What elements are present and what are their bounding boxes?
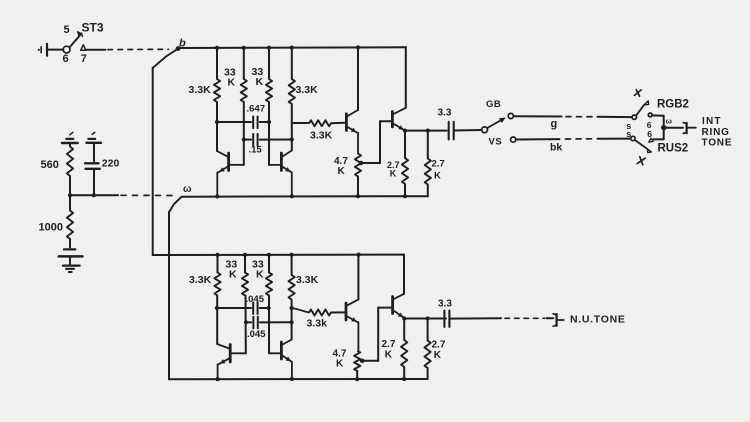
wire (Q3 collector to rail) (357, 47, 359, 110)
node (Q3 emitter / 4.7K top) (359, 161, 364, 166)
label GB (486, 99, 501, 110)
wire (69, 258, 71, 265)
wire (86, 49, 106, 51)
label 33K (224, 67, 236, 89)
wire (291, 104, 293, 151)
wire g (dashed) (566, 116, 596, 118)
wire (427, 368, 429, 379)
wire (664, 127, 683, 129)
contact (RUS2 output) (649, 138, 653, 142)
contact (g line end) (632, 115, 636, 119)
label RING (702, 127, 730, 138)
label INT (702, 116, 722, 127)
node (215, 120, 219, 124)
wire (404, 184, 406, 196)
label 3.3 (438, 299, 452, 310)
contact (RGB2 output) (648, 113, 652, 117)
node b label (179, 38, 186, 50)
contact GB (open circle) (482, 127, 488, 133)
label 3.3k (307, 318, 328, 330)
capacitor .045 (217, 302, 269, 314)
switch blade from node b (153, 49, 177, 67)
wire (bottom supply rail) (153, 254, 404, 256)
wire (547, 317, 554, 319)
svg-text:6: 6 (63, 53, 69, 65)
node (267, 46, 271, 50)
wire g (solid) (513, 115, 561, 117)
wire (Q2 collector output) (292, 122, 309, 124)
svg-text:560: 560 (41, 159, 59, 171)
terminal (INT RING TONE) (683, 123, 696, 134)
wire (652, 114, 664, 116)
node (356, 45, 360, 49)
svg-text:.045: .045 (247, 329, 266, 340)
label 3.3K (296, 84, 319, 96)
resistor R 33K (Q1 base) (241, 48, 247, 102)
label .045 (246, 294, 265, 305)
wire (403, 367, 405, 379)
svg-text:2.7: 2.7 (432, 340, 446, 351)
resistor R 33K (Q5 base) (242, 255, 248, 296)
wire (link to Q8 base) (362, 308, 391, 361)
node (560/220 junction) (68, 193, 72, 197)
label 4.7K (333, 349, 347, 370)
svg-text:K: K (434, 171, 441, 182)
node (267, 306, 271, 310)
svg-text:g: g (551, 118, 558, 130)
label 560 (41, 159, 59, 171)
resistor R 33K (Q2 base) (266, 48, 272, 102)
svg-text:ω: ω (183, 184, 192, 195)
svg-text:6: 6 (647, 129, 652, 139)
label .045 (247, 329, 266, 340)
wire (243, 102, 245, 165)
svg-text:3.3K: 3.3K (189, 274, 212, 286)
svg-text:TONE: TONE (702, 138, 733, 149)
resistor 2.7K (second) (425, 131, 431, 185)
wire (dashed to node w) (121, 194, 172, 196)
svg-text:2.7: 2.7 (382, 339, 396, 350)
node (403, 129, 407, 133)
wire (245, 296, 247, 354)
label 2.7K (432, 159, 445, 182)
node (ring tone junction) (661, 125, 666, 130)
switch RGB2 blade (636, 101, 648, 116)
svg-text:2.7: 2.7 (432, 159, 445, 170)
label VS (489, 137, 503, 148)
transistor Q8 (393, 294, 405, 319)
wire (331, 122, 345, 124)
wire (w down to bottom rail) (168, 212, 170, 379)
svg-text:220: 220 (102, 158, 120, 170)
label RGB2 (657, 99, 689, 111)
capacitor 220 (85, 163, 100, 169)
svg-text:3.3K: 3.3K (296, 274, 319, 286)
battery cell terminal (left of ST3) (38, 44, 47, 56)
label 3.3K (296, 274, 319, 286)
node (290, 46, 294, 50)
label e (666, 117, 673, 126)
capacitor .045 (lower) (246, 317, 292, 329)
node (290, 320, 294, 324)
svg-text:K: K (390, 169, 397, 179)
node (290, 253, 294, 257)
switch ST3 blade (70, 36, 80, 47)
actuator cross (RUS2) (637, 157, 645, 165)
label 33K (252, 66, 264, 88)
wire (291, 300, 293, 340)
svg-text:N.U.TONE: N.U.TONE (570, 314, 626, 326)
node (402, 377, 406, 381)
wire (216, 102, 218, 151)
wire (69, 176, 71, 195)
wire (bracket to junction) (663, 116, 665, 139)
node w label (183, 184, 192, 195)
node (242, 46, 246, 50)
svg-text:.15: .15 (249, 145, 263, 156)
node (403, 194, 407, 198)
wire (216, 296, 218, 345)
label ST3 (82, 21, 104, 35)
svg-text:.647: .647 (247, 104, 266, 115)
capacitor 3.3 (output coupling) (449, 122, 454, 140)
node (355, 377, 359, 381)
wire (356, 371, 358, 379)
resistor 2.7K (first) (401, 319, 407, 367)
label g (551, 118, 558, 130)
label N.U.TONE (570, 314, 626, 326)
svg-text:K: K (229, 269, 237, 281)
svg-text:3.3K: 3.3K (296, 84, 319, 96)
node (215, 46, 219, 50)
label 2.7K (382, 339, 396, 361)
node (215, 194, 219, 198)
label 3.3 (438, 108, 452, 119)
contact (bk line start) (511, 137, 516, 142)
label 33K (252, 259, 264, 281)
label 220 (102, 158, 120, 170)
wire (331, 311, 345, 313)
node (426, 316, 430, 320)
node (215, 253, 219, 257)
svg-text:ω: ω (666, 117, 673, 126)
label 6 (63, 53, 69, 65)
svg-text:K: K (228, 77, 236, 89)
svg-text:.045: .045 (246, 294, 265, 305)
wire (449, 317, 501, 319)
svg-text:K: K (338, 166, 346, 177)
svg-text:RING: RING (702, 127, 730, 138)
wire (rail corner to Q4 collector) (405, 47, 407, 108)
transistor Q5 (217, 344, 246, 379)
label 5 (64, 24, 70, 36)
resistor R 33K (Q6 base) (266, 255, 272, 296)
wire (link to Q4 base) (361, 121, 391, 163)
wire (Q7 collector to rail) (357, 255, 359, 300)
wire (69, 143, 71, 147)
svg-text:s: s (626, 129, 631, 139)
node b junction (176, 46, 181, 51)
wire (rail corner to Q8 collector) (403, 255, 405, 294)
switch blade from node w (169, 197, 182, 212)
label 2.7K (432, 340, 446, 362)
svg-text:VS: VS (489, 137, 503, 148)
supply terminal (above 220) (86, 132, 101, 142)
resistor 2.7K (first) (402, 131, 408, 184)
terminal (N.U. TONE) (553, 314, 564, 326)
resistor R 3.3K (Q5 collector load) (214, 255, 220, 296)
wire (Q4 emitter output row) (405, 130, 447, 132)
svg-text:3.3: 3.3 (438, 108, 452, 119)
resistor 3.3k (series to Q7 base) (309, 310, 331, 316)
wire (b feed down to lower rail) (152, 68, 154, 255)
label 33K (226, 259, 238, 281)
wire (427, 185, 429, 197)
svg-text:RGB2: RGB2 (657, 99, 689, 111)
node (243, 253, 247, 257)
node (215, 306, 219, 310)
wire g (solid) (598, 116, 632, 118)
label .15 (249, 145, 263, 156)
wire bk (dashed) (566, 138, 596, 140)
label 2.7K (387, 160, 400, 179)
wire (93, 169, 95, 196)
node (244, 320, 248, 324)
svg-text:bk: bk (550, 142, 562, 154)
wire (653, 138, 663, 140)
resistor 3.3K (series to Q3 base) (309, 120, 331, 126)
node (216, 377, 220, 381)
switch blade with arrow (GB to g line) (487, 118, 505, 128)
resistor 560 (67, 147, 73, 176)
node (356, 194, 360, 198)
label bk (550, 142, 562, 154)
resistor 4.7K (354, 351, 360, 371)
wire (357, 177, 359, 197)
svg-text:K: K (336, 359, 344, 370)
ground (63, 266, 80, 272)
svg-text:GB: GB (486, 99, 501, 110)
switch ST3 pivot terminal 6 (63, 46, 70, 53)
node (290, 306, 294, 310)
spring contact s (626, 121, 631, 131)
wire (69, 239, 71, 248)
label 7 (81, 53, 87, 65)
svg-text:K: K (385, 350, 393, 361)
resistor R 3.3K (Q2 collector load) (289, 48, 295, 104)
transistor Q2 (269, 151, 292, 197)
wire (top circuit emitter rail) (182, 195, 428, 198)
wire (93, 143, 95, 162)
capacitor .15 (244, 134, 292, 146)
resistor R 3.3K (Q6 collector load) (289, 255, 295, 300)
supply terminal (above 560) (62, 132, 78, 143)
node (267, 120, 271, 124)
label 3.3K (189, 274, 212, 286)
wire (268, 102, 270, 165)
capacitor 3.3 (N.U. tone coupling) (444, 311, 449, 327)
wire (70, 194, 118, 196)
node (290, 194, 294, 198)
svg-text:5: 5 (64, 24, 70, 36)
switch ST3 contact 5 (78, 32, 83, 37)
transistor Q1 (217, 151, 244, 196)
battery cell (59, 249, 83, 256)
svg-text:3.3K: 3.3K (310, 130, 333, 142)
wire (dashed link to node b) (108, 48, 169, 50)
wire (268, 296, 270, 354)
wire (48, 49, 63, 51)
node (Q7 emitter / 4.7K top) (360, 359, 365, 364)
contact 6 (647, 129, 652, 139)
capacitor .647 (217, 117, 269, 129)
label TONE (702, 138, 733, 149)
node (220 to rail) (92, 193, 96, 197)
transistor Q3 (346, 110, 358, 154)
wire (dashed) (505, 317, 545, 319)
svg-text:3.3K: 3.3K (189, 84, 212, 96)
node (290, 137, 294, 141)
switch ST3 contact 7 (81, 45, 86, 51)
contact (bk line end) (631, 136, 635, 140)
resistor 2.7K (second) (425, 319, 431, 368)
wire (Q8 emitter output row) (404, 318, 446, 320)
svg-text:K: K (256, 269, 264, 281)
node (357, 253, 361, 257)
svg-text:INT: INT (702, 116, 722, 127)
resistor 1000 (67, 195, 73, 239)
label .647 (247, 104, 266, 115)
node (242, 137, 246, 141)
svg-text:3.3: 3.3 (438, 299, 452, 310)
transistor Q4 (392, 108, 405, 131)
svg-text:1000: 1000 (39, 222, 63, 234)
node (402, 316, 406, 320)
wire bk (solid) (598, 138, 631, 140)
svg-text:K: K (434, 350, 442, 361)
transistor Q6 (269, 340, 292, 380)
label 3.3K (189, 84, 212, 96)
svg-text:RUS2: RUS2 (658, 143, 689, 155)
svg-text:7: 7 (81, 53, 87, 65)
wire (Q6 collector output) (292, 308, 309, 312)
wire (bottom circuit emitter rail) (169, 378, 428, 380)
node (426, 129, 430, 133)
contact (g line start) (508, 113, 513, 118)
resistor 4.7K (355, 154, 361, 177)
label 3.3K (310, 130, 333, 142)
wire bk (solid) (516, 138, 560, 140)
spring contact s (626, 129, 631, 139)
node (290, 377, 294, 381)
label 1000 (39, 222, 63, 234)
resistor R 3.3K (Q1 collector load) (214, 48, 220, 102)
contact 6 (647, 120, 652, 130)
actuator cross (RGB2) (634, 90, 641, 97)
switch RUS2 blade (635, 140, 651, 152)
svg-text:ST3: ST3 (82, 21, 104, 35)
wire (454, 129, 482, 132)
wire (top supply rail) (178, 46, 406, 49)
node (267, 253, 271, 257)
svg-text:K: K (256, 76, 264, 88)
label RUS2 (658, 143, 689, 155)
label 4.7K (334, 156, 348, 177)
transistor Q7 (346, 299, 358, 350)
svg-text:3.3k: 3.3k (307, 318, 328, 330)
